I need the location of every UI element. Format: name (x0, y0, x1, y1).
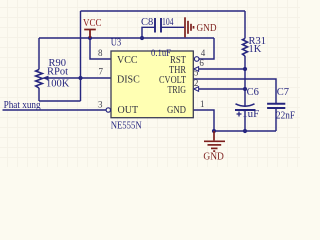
svg-text:22nF: 22nF (276, 111, 295, 122)
wire top rail (DISC net) (81, 10, 246, 12)
svg-text:GND: GND (203, 152, 224, 163)
node pin6 / R31 junction (243, 67, 247, 71)
wire C6 stem (244, 110, 246, 131)
svg-text:0.1uF: 0.1uF (151, 49, 171, 59)
wire C8 stub (142, 27, 155, 38)
node ground rail / C6 junction (243, 129, 247, 133)
svg-text:TRIG: TRIG (168, 85, 187, 96)
wire pot top lead (38, 38, 40, 70)
svg-text:2: 2 (194, 78, 199, 88)
svg-text:1: 1 (200, 99, 205, 109)
svg-text:1uF: 1uF (242, 109, 259, 120)
wire pin 5 to C7 (193, 79, 276, 104)
svg-text:U3: U3 (111, 37, 122, 48)
resistor R31 (243, 36, 267, 56)
wire ground rail (214, 130, 276, 132)
svg-text:VCC: VCC (117, 55, 138, 66)
node ground rail / pin1 junction (212, 129, 216, 133)
svg-text:104: 104 (162, 17, 174, 28)
pin 2 input arrow (194, 87, 199, 92)
wire wiper to pin 7 (48, 77, 111, 79)
svg-text:7: 7 (99, 67, 104, 77)
svg-text:C8: C8 (141, 17, 153, 28)
node pin2 / R31 junction (243, 87, 247, 91)
wire left vertical (80, 11, 82, 101)
svg-text:100K: 100K (46, 79, 70, 90)
svg-text:OUT: OUT (118, 105, 139, 116)
svg-text:3: 3 (98, 100, 103, 110)
capacitor C7 (267, 87, 295, 122)
wire C8 to ground (162, 26, 185, 28)
wire pin 1 jog (193, 110, 214, 131)
resistor R90 potentiometer (36, 58, 70, 90)
wiper arrow (42, 76, 49, 81)
wire pot bottom lead (38, 88, 40, 101)
capacitor C8 (141, 17, 174, 33)
svg-text:GND: GND (197, 23, 217, 34)
ground (bar style, top) (185, 17, 194, 37)
svg-text:DISC: DISC (117, 75, 140, 86)
svg-text:8: 8 (98, 48, 103, 58)
svg-text:C7: C7 (277, 87, 289, 98)
ground (earth style, bottom) (204, 131, 225, 151)
wire pin 6 (198, 68, 245, 70)
wire C7 stem (275, 108, 277, 131)
svg-text:C6: C6 (247, 87, 259, 98)
pin 6 input arrow (194, 67, 199, 72)
wire pin 3 (Phat xung) (3, 109, 107, 111)
VCC power symbol (83, 18, 102, 38)
pin names (117, 55, 186, 116)
svg-text:4: 4 (201, 48, 206, 58)
wire pin 2 (198, 88, 245, 90)
wire VCC rail (39, 37, 214, 39)
node C8 stub junction (140, 36, 144, 40)
pin 3 output glyph (106, 108, 110, 112)
wire pin 4 jog (199, 38, 214, 59)
svg-text:Phat xung: Phat xung (4, 100, 42, 111)
node wiper / left vertical junction (78, 76, 82, 80)
wire pot bottom loop (39, 100, 81, 102)
pin 4 bubble (194, 57, 199, 62)
svg-text:NE555N: NE555N (111, 120, 142, 131)
svg-text:GND: GND (167, 105, 186, 116)
wire pin 8 jog (90, 38, 111, 59)
pin numbers (98, 48, 206, 110)
op-amp U1: IC body U3 NE555N (111, 37, 194, 131)
svg-text:6: 6 (199, 58, 204, 68)
svg-text:VCC: VCC (83, 18, 102, 29)
svg-text:RPot: RPot (47, 66, 68, 77)
wire R31 bottom lead (244, 56, 246, 106)
capacitor C6 (polarized) (235, 87, 259, 120)
wire R31 top lead (244, 11, 246, 39)
svg-text:1K: 1K (249, 44, 262, 55)
node VCC rail / power stem junction (88, 36, 92, 40)
